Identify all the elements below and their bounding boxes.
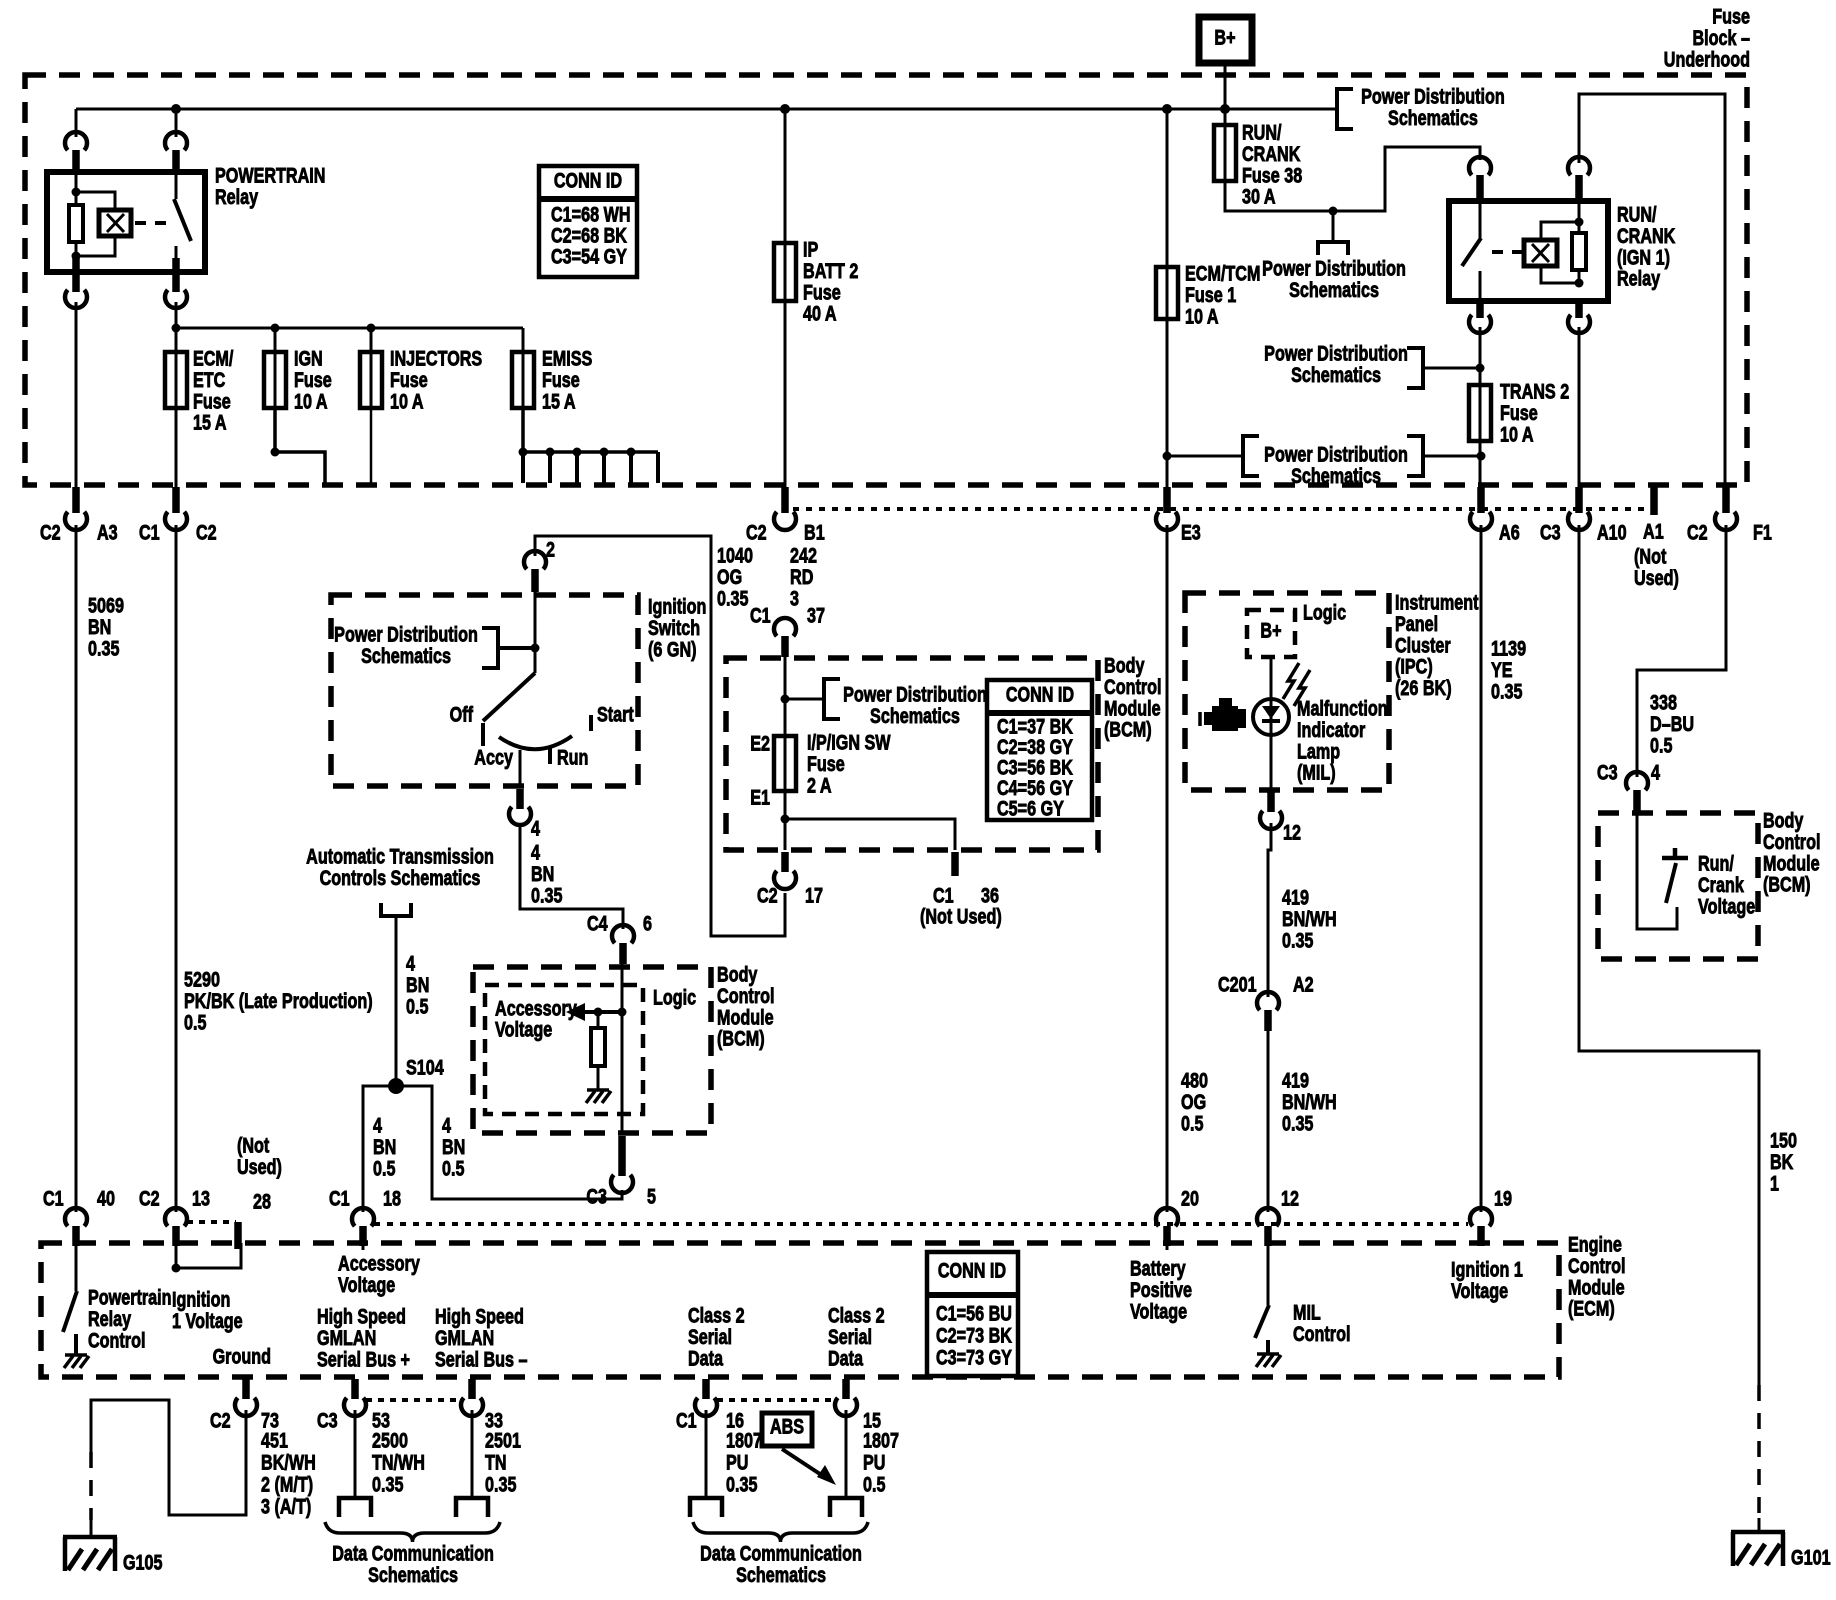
- svg-text:Fuse: Fuse: [807, 752, 845, 776]
- svg-text:4: 4: [531, 816, 540, 840]
- connector arc BCM C4/6: [612, 925, 634, 943]
- svg-text:TRANS 2: TRANS 2: [1500, 379, 1569, 403]
- svg-text:5290: 5290: [184, 967, 220, 991]
- svg-text:E3: E3: [1181, 520, 1201, 544]
- svg-text:419: 419: [1282, 1068, 1309, 1092]
- B+ terminal: [1199, 17, 1252, 63]
- connector C2/A3 fuse block exit: [72, 487, 80, 513]
- connector ECM exit 15: [842, 1379, 850, 1399]
- svg-text:4: 4: [1651, 760, 1660, 784]
- svg-text:PU: PU: [863, 1450, 885, 1474]
- svg-text:17: 17: [805, 883, 823, 907]
- svg-text:Positive: Positive: [1130, 1278, 1192, 1302]
- svg-text:15 A: 15 A: [193, 411, 227, 435]
- svg-text:BN: BN: [88, 615, 111, 639]
- svg-text:Data: Data: [828, 1346, 864, 1370]
- svg-text:12: 12: [1281, 1186, 1299, 1210]
- svg-text:A3: A3: [97, 520, 118, 544]
- connector ECM ground exit C2/73: [242, 1379, 250, 1399]
- wire S104 branch to BCM C3/5: [396, 1086, 622, 1199]
- svg-text:Fuse: Fuse: [1500, 401, 1538, 425]
- svg-text:Block –: Block –: [1692, 26, 1750, 50]
- svg-text:RUN/: RUN/: [1242, 120, 1282, 144]
- svg-text:BN/WH: BN/WH: [1282, 907, 1337, 931]
- wire powertrain relay output to fuse bus: [175, 302, 178, 328]
- wire 5069 below C2/A3: [75, 525, 78, 1212]
- svg-text:Accessory: Accessory: [495, 996, 577, 1020]
- svg-text:Control: Control: [717, 984, 774, 1008]
- run/crank relay coil winding loop: [1541, 222, 1579, 240]
- svg-text:C1: C1: [43, 1186, 64, 1210]
- svg-text:Schematics: Schematics: [1289, 278, 1379, 302]
- svg-text:ABS: ABS: [770, 1414, 804, 1438]
- wire BCM logic to C3/5 exit: [621, 1012, 624, 1133]
- svg-text:4: 4: [442, 1113, 451, 1137]
- svg-text:Fuse: Fuse: [294, 368, 332, 392]
- table CONN ID BCM: [987, 680, 1092, 820]
- node bus junction at B+ lead: [1220, 104, 1230, 114]
- svg-text:Fuse: Fuse: [803, 280, 841, 304]
- svg-text:OG: OG: [1181, 1090, 1206, 1114]
- svg-text:Logic: Logic: [653, 985, 696, 1009]
- svg-text:(MIL): (MIL): [1297, 761, 1336, 785]
- arrow accessory voltage: [583, 1010, 622, 1014]
- connector ECM pin C1/18: [352, 1208, 374, 1226]
- svg-text:Voltage: Voltage: [1451, 1279, 1508, 1303]
- svg-text:40 A: 40 A: [803, 302, 837, 326]
- svg-text:Data Communication: Data Communication: [332, 1541, 494, 1565]
- powertrain relay actuation dashed link: [135, 221, 168, 225]
- svg-text:4: 4: [373, 1113, 382, 1137]
- wire 2501 TN: [471, 1410, 474, 1498]
- svg-text:C1: C1: [933, 883, 954, 907]
- fuse block underhood enclosure (dashed): [25, 75, 1747, 485]
- wire B+ to MIL lamp: [1270, 657, 1273, 699]
- module instrument panel cluster box (dashed): [1185, 593, 1389, 790]
- svg-text:BK/WH: BK/WH: [261, 1450, 316, 1474]
- svg-text:Schematics: Schematics: [368, 1563, 458, 1587]
- node TRANS2 wire lower junction: [1477, 452, 1486, 461]
- svg-text:IP: IP: [803, 237, 818, 261]
- svg-text:Body: Body: [1763, 808, 1804, 832]
- terminal bracket 1807a: [690, 1498, 722, 1517]
- splice S104: [388, 1078, 404, 1094]
- svg-text:(Not: (Not: [237, 1133, 270, 1157]
- svg-text:338: 338: [1650, 690, 1677, 714]
- svg-text:RUN/: RUN/: [1617, 202, 1657, 226]
- svg-text:C3: C3: [1540, 520, 1561, 544]
- reference bracket lower-left Power Distribution Schematics: [1167, 455, 1243, 458]
- svg-text:(26 BK): (26 BK): [1395, 676, 1452, 700]
- svg-text:Logic: Logic: [1303, 600, 1346, 624]
- MIL control driver: [1267, 1243, 1270, 1305]
- svg-text:Crank: Crank: [1698, 873, 1744, 897]
- connector E3 fuse block exit: [1163, 487, 1171, 513]
- svg-text:Control: Control: [1293, 1322, 1350, 1346]
- wire 338 D-BU from F1 to BCM: [1637, 525, 1726, 777]
- wire IGN fuse jog to border: [275, 408, 325, 483]
- svg-text:Fuse 38: Fuse 38: [1242, 163, 1302, 187]
- fuse INJECTORS 10A: [370, 328, 373, 352]
- wire ignition switch feed from BCM C2/17 loop: [535, 536, 785, 936]
- svg-text:(Not: (Not: [1634, 544, 1667, 568]
- svg-text:EMISS: EMISS: [542, 346, 592, 370]
- B+ internal source symbol (dashed): [1247, 610, 1295, 657]
- connector C2/B1 fuse block exit: [781, 487, 789, 513]
- terminal bracket 1807b: [830, 1498, 862, 1517]
- run/crank relay switch lever: [1479, 199, 1482, 238]
- svg-text:A6: A6: [1499, 520, 1520, 544]
- wire 2500 TN/WH: [354, 1410, 357, 1498]
- svg-text:C2: C2: [196, 520, 217, 544]
- connector arc BCM C3/5 exit: [618, 1136, 626, 1176]
- svg-text:OG: OG: [717, 565, 742, 589]
- node fuse38 branch to PDS reference: [1329, 207, 1338, 216]
- reference bracket Power Distribution Schematics (ignition switch): [498, 646, 535, 650]
- wire main B+ bus: [76, 108, 1337, 111]
- svg-text:Powertrain: Powertrain: [88, 1285, 172, 1309]
- svg-text:Data Communication: Data Communication: [700, 1541, 862, 1565]
- svg-text:(IGN 1): (IGN 1): [1617, 245, 1670, 269]
- svg-text:IGN: IGN: [294, 346, 323, 370]
- svg-text:1139: 1139: [1491, 636, 1526, 660]
- svg-text:Fuse: Fuse: [1712, 4, 1750, 28]
- brace data communication right: [693, 1522, 868, 1542]
- wire run/crank relay coil feed loop: [1579, 94, 1725, 487]
- svg-text:Battery: Battery: [1130, 1256, 1186, 1280]
- svg-text:10 A: 10 A: [390, 389, 424, 413]
- svg-text:Serial: Serial: [828, 1325, 872, 1349]
- brace data communication left: [325, 1522, 500, 1542]
- svg-text:Module: Module: [1568, 1275, 1625, 1299]
- svg-text:6: 6: [643, 911, 652, 935]
- svg-text:2 A: 2 A: [807, 773, 832, 797]
- svg-text:Underhood: Underhood: [1664, 47, 1750, 71]
- svg-text:C5=6 GY: C5=6 GY: [997, 796, 1064, 820]
- reference bracket TRANS2 upper Power Distribution Schematics: [1407, 348, 1423, 388]
- svg-text:C1: C1: [750, 603, 771, 627]
- node bus junction at ECM/TCM fuse: [1162, 104, 1172, 114]
- svg-text:1 Voltage: 1 Voltage: [172, 1309, 243, 1333]
- svg-text:Start: Start: [597, 702, 634, 726]
- svg-text:G101: G101: [1791, 1545, 1831, 1569]
- dotted link Class2 pair: [717, 1398, 835, 1402]
- svg-text:Schematics: Schematics: [1291, 464, 1381, 488]
- connector arc powertrain relay pin 86 lower: [72, 258, 80, 292]
- svg-text:Control: Control: [1763, 830, 1820, 854]
- wire ECM internal jumper 13-28: [176, 1243, 241, 1268]
- svg-text:Relay: Relay: [1617, 267, 1661, 291]
- wire B+ down to bus: [1224, 63, 1227, 109]
- ignition switch Off tick: [481, 723, 485, 746]
- svg-text:0.35: 0.35: [372, 1472, 403, 1496]
- wire 1139 YE from A6 to ECM pin 19: [1480, 525, 1483, 1212]
- ignition switch Run tick: [548, 748, 552, 764]
- svg-text:Module: Module: [1104, 696, 1161, 720]
- svg-text:Fuse: Fuse: [542, 368, 580, 392]
- run/crank relay coil resistor: [1578, 199, 1581, 222]
- svg-text:Data: Data: [688, 1346, 724, 1370]
- wire INJECTORS fuse down to border: [370, 408, 373, 483]
- svg-text:28: 28: [253, 1189, 271, 1213]
- svg-text:0.35: 0.35: [485, 1472, 516, 1496]
- svg-text:10 A: 10 A: [1500, 422, 1534, 446]
- svg-text:ECM/TCM: ECM/TCM: [1185, 261, 1260, 285]
- svg-text:5069: 5069: [88, 593, 124, 617]
- connector ECM exit C3/53: [351, 1379, 359, 1399]
- wire bus to powertrain relay switch: [175, 109, 178, 137]
- svg-text:B+: B+: [1214, 25, 1235, 49]
- dotted jumper pin13 to pin28: [187, 1220, 236, 1224]
- svg-text:G105: G105: [123, 1550, 163, 1574]
- svg-text:Ground: Ground: [213, 1344, 271, 1368]
- svg-text:Power Distribution: Power Distribution: [1264, 341, 1408, 365]
- relay K powertrain relay box: [47, 172, 205, 272]
- svg-text:Schematics: Schematics: [1388, 106, 1478, 130]
- svg-text:BK: BK: [1770, 1150, 1794, 1174]
- connector arc run/crank relay coil pin: [1568, 157, 1590, 175]
- wire 5290 below C1/C2: [175, 525, 178, 1212]
- powertrain relay coil winding loop: [76, 192, 115, 210]
- svg-text:0.35: 0.35: [726, 1472, 757, 1496]
- svg-text:4: 4: [531, 840, 540, 864]
- wire MIL lamp to IPC pin 12: [1270, 735, 1273, 790]
- svg-text:40: 40: [97, 1186, 115, 1210]
- connector ECM pin 19: [1470, 1208, 1492, 1226]
- svg-text:13: 13: [192, 1186, 210, 1210]
- connector ECM exit 33: [468, 1379, 476, 1399]
- svg-text:Panel: Panel: [1395, 612, 1438, 636]
- svg-text:Voltage: Voltage: [1130, 1299, 1187, 1323]
- reference bracket Power Distribution Schematics (BCM): [785, 698, 824, 701]
- svg-text:5: 5: [647, 1184, 656, 1208]
- svg-text:480: 480: [1181, 1068, 1208, 1092]
- svg-text:GMLAN: GMLAN: [435, 1326, 494, 1350]
- wire fuse bus horizontal: [176, 327, 523, 330]
- svg-text:0.5: 0.5: [863, 1472, 885, 1496]
- svg-text:Schematics: Schematics: [736, 1563, 826, 1587]
- svg-text:High Speed: High Speed: [435, 1304, 524, 1328]
- svg-text:419: 419: [1282, 885, 1309, 909]
- svg-text:Voltage: Voltage: [1698, 894, 1755, 918]
- connector ECM pin 12: [1257, 1208, 1279, 1226]
- svg-text:242: 242: [790, 543, 817, 567]
- svg-text:Body: Body: [717, 962, 758, 986]
- svg-text:Run/: Run/: [1698, 851, 1735, 875]
- run/crank relay actuation dashed link: [1492, 250, 1522, 254]
- fuse IP BATT 2 40A: [784, 109, 787, 243]
- svg-text:Control: Control: [88, 1328, 145, 1352]
- svg-text:BN/WH: BN/WH: [1282, 1090, 1337, 1114]
- module body control module box (dashed): [726, 658, 1098, 850]
- svg-text:Indicator: Indicator: [1297, 718, 1365, 742]
- svg-text:2500: 2500: [372, 1428, 408, 1452]
- svg-text:Module: Module: [717, 1005, 774, 1029]
- svg-text:ETC: ETC: [193, 368, 226, 392]
- connector arc powertrain relay switch pin 30: [165, 132, 187, 150]
- svg-text:0.5: 0.5: [1181, 1111, 1203, 1135]
- svg-text:Used): Used): [1634, 566, 1679, 590]
- fuse I/P/IGN SW 2A: [774, 736, 796, 791]
- svg-text:C2: C2: [746, 520, 767, 544]
- svg-text:BN: BN: [373, 1135, 396, 1159]
- svg-text:Power Distribution: Power Distribution: [1264, 442, 1408, 466]
- svg-text:Off: Off: [450, 702, 474, 726]
- svg-text:10 A: 10 A: [294, 389, 328, 413]
- dotted connector-group line below fuse block: [793, 507, 1654, 511]
- svg-text:A2: A2: [1293, 972, 1314, 996]
- dotted connector-group line above ECM: [374, 1222, 1468, 1226]
- wire 419 BN/WH from IPC to ECM pin 12: [1268, 823, 1271, 997]
- svg-text:Module: Module: [1763, 851, 1820, 875]
- svg-text:0.35: 0.35: [1282, 928, 1313, 952]
- svg-text:(6 GN): (6 GN): [648, 637, 697, 661]
- connector arc run/crank relay switch lower: [1476, 303, 1484, 318]
- svg-text:1807: 1807: [726, 1428, 762, 1452]
- wire relay coil pin down to C2/A3 exit: [75, 302, 78, 487]
- svg-text:2: 2: [546, 537, 555, 561]
- svg-text:3: 3: [790, 586, 799, 610]
- svg-text:(BCM): (BCM): [717, 1027, 765, 1051]
- svg-text:POWERTRAIN: POWERTRAIN: [215, 163, 325, 187]
- svg-text:Malfunction: Malfunction: [1297, 696, 1388, 720]
- svg-text:Serial Bus +: Serial Bus +: [317, 1347, 410, 1371]
- ground BCM logic internal: [587, 1088, 609, 1092]
- svg-text:TN: TN: [485, 1450, 507, 1474]
- svg-text:1807: 1807: [863, 1428, 899, 1452]
- svg-text:B1: B1: [804, 520, 825, 544]
- module BCM logic outer box (dashed): [473, 967, 711, 1133]
- svg-text:C1: C1: [139, 520, 160, 544]
- svg-text:Fuse 1: Fuse 1: [1185, 283, 1236, 307]
- wire 150 BK from A10 down and right: [1579, 525, 1759, 1385]
- wire bus to powertrain relay coil: [75, 109, 78, 137]
- connector arc run/crank relay switch pin: [1469, 157, 1491, 175]
- svg-text:1040: 1040: [717, 543, 753, 567]
- connector arc IPC pin 12 exit: [1267, 792, 1275, 812]
- svg-text:Run: Run: [557, 745, 588, 769]
- svg-text:(IPC): (IPC): [1395, 655, 1433, 679]
- svg-text:INJECTORS: INJECTORS: [390, 346, 482, 370]
- svg-text:(BCM): (BCM): [1104, 718, 1152, 742]
- connector arc run/crank relay coil lower: [1575, 303, 1583, 318]
- svg-text:C3: C3: [1597, 760, 1618, 784]
- svg-text:C3=73 GY: C3=73 GY: [936, 1345, 1012, 1369]
- svg-text:Schematics: Schematics: [1291, 363, 1381, 387]
- wire 4 BN from AT controls to S104: [395, 916, 398, 1086]
- reference bracket Power Distribution Schematics (hanging): [1332, 211, 1335, 242]
- svg-text:Voltage: Voltage: [338, 1273, 395, 1297]
- powertrain relay control driver: [75, 1243, 78, 1291]
- fuse TRANS 2 10A: [1469, 385, 1491, 441]
- svg-text:C2: C2: [757, 883, 778, 907]
- connector ECM pin 20: [1156, 1208, 1178, 1226]
- fuse ECM/ETC 15A: [175, 328, 178, 352]
- wire ignition switch output 4: [519, 750, 522, 787]
- svg-text:Schematics: Schematics: [361, 644, 451, 668]
- connector C3/A10 fuse block exit: [1575, 487, 1583, 513]
- svg-text:15 A: 15 A: [542, 389, 576, 413]
- ignition switch lever to Off: [534, 648, 537, 673]
- table CONN ID ECM: [927, 1252, 1018, 1376]
- svg-text:D–BU: D–BU: [1650, 712, 1694, 736]
- connector C201/A2: [1257, 992, 1279, 1010]
- svg-text:Accy: Accy: [474, 745, 513, 769]
- fuse ECM/TCM Fuse 1 10A: [1166, 109, 1169, 267]
- svg-text:ECM/: ECM/: [193, 346, 234, 370]
- svg-text:0.35: 0.35: [717, 586, 748, 610]
- svg-text:4: 4: [406, 951, 415, 975]
- fuse EMISS 15A: [522, 328, 525, 352]
- connector arc BCM C2/17 exit: [781, 852, 789, 872]
- wire fuse38 jog to run/crank relay switch: [1225, 147, 1480, 211]
- connector arc powertrain relay coil pin 85: [65, 132, 87, 150]
- connector arc powertrain relay pin 87 lower: [172, 258, 180, 292]
- svg-text:C1: C1: [329, 1186, 350, 1210]
- wire BCM logic accessory voltage node: [621, 964, 624, 1012]
- svg-text:C1=56 BU: C1=56 BU: [936, 1301, 1012, 1325]
- svg-text:20: 20: [1181, 1186, 1199, 1210]
- connector arc ignition switch pin 2: [524, 551, 546, 569]
- svg-text:C2=73 BK: C2=73 BK: [936, 1323, 1012, 1347]
- powertrain relay switch lever: [175, 174, 178, 199]
- svg-text:BN: BN: [406, 973, 429, 997]
- connector ECM pin C1/40: [65, 1208, 87, 1226]
- svg-text:Power Distribution: Power Distribution: [334, 622, 478, 646]
- module ignition switch box (dashed): [331, 595, 638, 786]
- svg-text:YE: YE: [1491, 658, 1513, 682]
- svg-text:37: 37: [807, 603, 825, 627]
- svg-text:C2: C2: [210, 1408, 231, 1432]
- svg-text:BN: BN: [442, 1135, 465, 1159]
- reference bracket lower-right Power Distribution Schematics: [1407, 436, 1423, 476]
- wire 480 OG from E3 to ECM pin 20: [1166, 525, 1169, 1212]
- svg-text:0.5: 0.5: [1650, 733, 1672, 757]
- svg-text:Ignition 1: Ignition 1: [1451, 1257, 1523, 1281]
- svg-text:C1=68 WH: C1=68 WH: [551, 202, 631, 226]
- svg-text:RD: RD: [790, 565, 813, 589]
- terminal bracket 2500: [339, 1498, 371, 1517]
- ignition switch detent arc: [499, 736, 572, 749]
- engine icon: [1212, 706, 1238, 731]
- svg-text:10 A: 10 A: [1185, 304, 1219, 328]
- svg-text:Engine: Engine: [1568, 1232, 1622, 1256]
- svg-text:MIL: MIL: [1293, 1300, 1321, 1324]
- svg-text:18: 18: [383, 1186, 401, 1210]
- svg-text:CONN ID: CONN ID: [938, 1258, 1006, 1282]
- run/crank voltage sense symbol: [1637, 813, 1677, 929]
- svg-text:Fuse: Fuse: [193, 389, 231, 413]
- svg-text:GMLAN: GMLAN: [317, 1326, 376, 1350]
- resistor BCM logic pull-down: [597, 1012, 600, 1028]
- wire run/crank relay coil lower down to C3/A10 exit: [1578, 327, 1581, 487]
- svg-text:F1: F1: [1753, 520, 1772, 544]
- svg-text:C3: C3: [317, 1408, 338, 1432]
- svg-text:C3: C3: [586, 1184, 607, 1208]
- connector C1/C2 fuse block exit: [172, 487, 180, 513]
- svg-text:0.35: 0.35: [1491, 679, 1522, 703]
- svg-text:C2: C2: [40, 520, 61, 544]
- ABS callout box: [762, 1413, 812, 1446]
- terminal bracket 2501: [456, 1498, 488, 1517]
- svg-text:2 (M/T): 2 (M/T): [261, 1472, 313, 1496]
- svg-text:TN/WH: TN/WH: [372, 1450, 425, 1474]
- wire ignition switch internal feed: [534, 592, 537, 648]
- svg-text:C201: C201: [1218, 972, 1257, 996]
- svg-text:Control: Control: [1568, 1254, 1625, 1278]
- lamp MIL LED symbol: [1253, 699, 1289, 735]
- svg-text:CRANK: CRANK: [1617, 224, 1676, 248]
